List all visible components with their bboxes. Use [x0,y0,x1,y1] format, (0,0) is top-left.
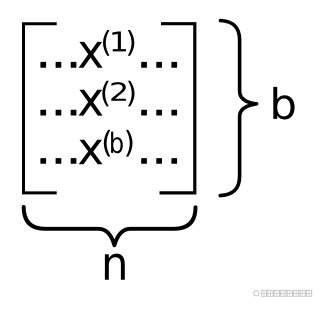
label n [105,254,125,280]
right bracket [160,24,195,193]
left bracket [24,24,57,193]
row 1 x [79,42,103,68]
row 2 x [79,90,103,116]
row 3 dots [40,158,46,164]
row 3 x [79,140,103,164]
row 1 dots [40,62,46,68]
superscript (2) [102,81,108,107]
superscript (b) [104,130,110,157]
label b [273,87,294,120]
watermark [254,290,312,296]
bottom curly brace [24,207,196,245]
superscript (1) [103,30,109,56]
row 2 dots [40,110,46,116]
right curly brace [220,21,256,196]
